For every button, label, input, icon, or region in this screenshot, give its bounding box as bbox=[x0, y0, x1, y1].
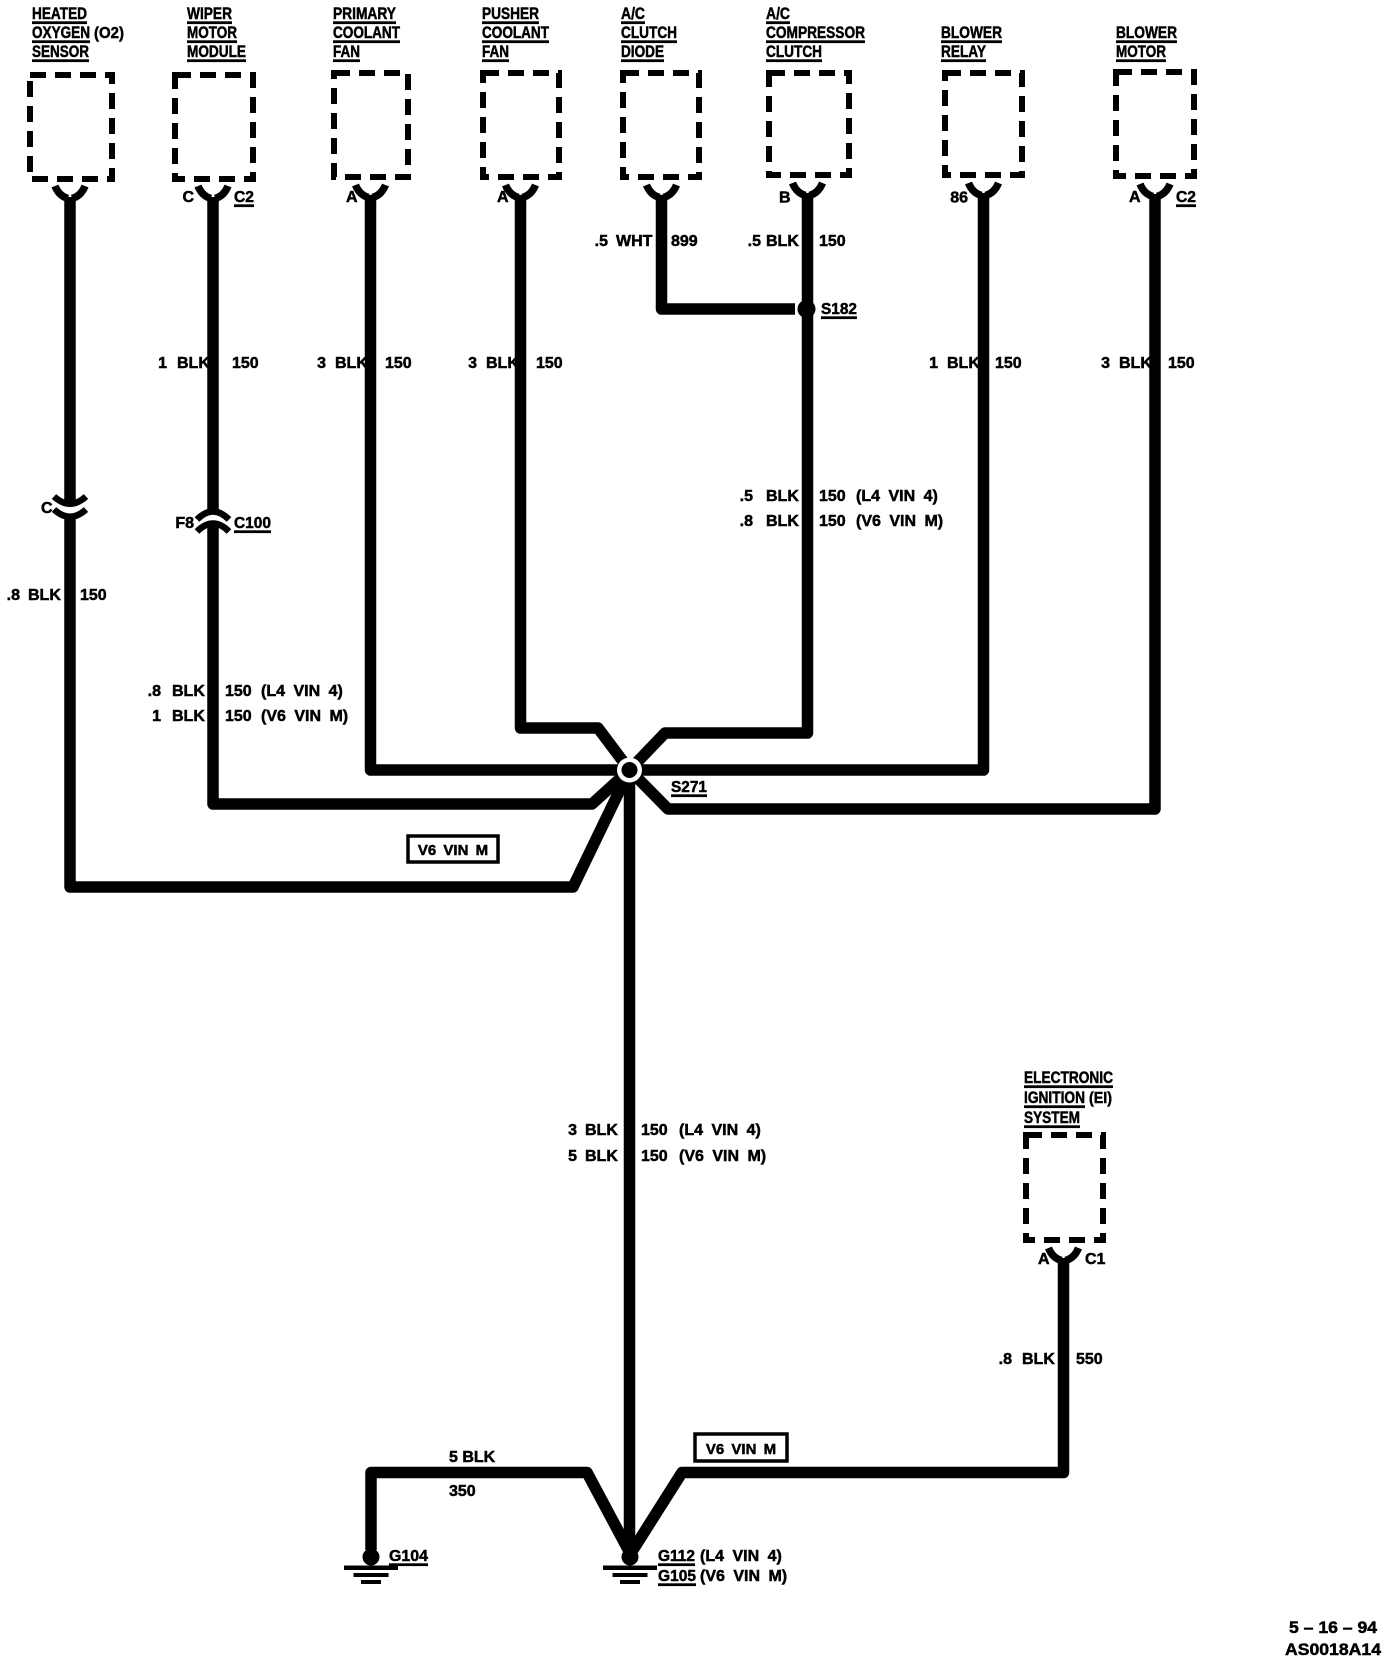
svg-text:RELAY: RELAY bbox=[941, 42, 987, 61]
svg-text:CLUTCH: CLUTCH bbox=[766, 42, 822, 61]
wire pusher coolant fan to S271 bbox=[521, 195, 630, 770]
electronic ignition system box bbox=[1026, 1135, 1103, 1240]
wiper motor module box bbox=[175, 75, 253, 179]
svg-text:BLK: BLK bbox=[766, 513, 799, 530]
svg-text:(O2): (O2) bbox=[94, 25, 124, 42]
in-line connector C at O2 sensor pigtail bbox=[54, 497, 86, 517]
svg-text:(L4 VIN 4): (L4 VIN 4) bbox=[679, 1122, 761, 1139]
svg-text:3: 3 bbox=[1101, 355, 1110, 372]
svg-text:.8: .8 bbox=[148, 683, 161, 700]
svg-text:150: 150 bbox=[1168, 355, 1195, 372]
svg-text:(V6 VIN M): (V6 VIN M) bbox=[700, 1568, 787, 1585]
connector Y at O2 sensor bbox=[55, 186, 85, 199]
connector Y at diode bbox=[647, 185, 677, 198]
ground G112/G105 bbox=[603, 1549, 657, 1585]
svg-text:150: 150 bbox=[819, 488, 846, 505]
svg-text:.5: .5 bbox=[740, 488, 753, 505]
flag box V6 VIN M (bottom) bbox=[695, 1434, 787, 1461]
svg-text:(L4 VIN 4): (L4 VIN 4) bbox=[700, 1548, 782, 1565]
svg-text:150: 150 bbox=[995, 355, 1022, 372]
svg-text:MODULE: MODULE bbox=[187, 42, 246, 61]
svg-text:G104: G104 bbox=[389, 1548, 428, 1565]
ground G104 bbox=[344, 1549, 398, 1585]
svg-text:IGNITION: IGNITION bbox=[1024, 1088, 1085, 1107]
svg-text:S271: S271 bbox=[671, 779, 707, 796]
svg-text:BLK: BLK bbox=[172, 683, 205, 700]
svg-text:3: 3 bbox=[568, 1122, 577, 1139]
connector Y at pusher fan pin A bbox=[506, 185, 536, 198]
svg-text:C100: C100 bbox=[234, 515, 271, 532]
svg-text:ELECTRONIC: ELECTRONIC bbox=[1024, 1068, 1113, 1087]
A/C compressor clutch box bbox=[769, 73, 849, 175]
svg-text:(L4 VIN 4): (L4 VIN 4) bbox=[856, 488, 938, 505]
svg-text:OXYGEN: OXYGEN bbox=[32, 23, 90, 42]
splice S182 bbox=[798, 300, 816, 318]
svg-text:A: A bbox=[497, 189, 509, 206]
svg-text:BLK: BLK bbox=[172, 708, 205, 725]
svg-text:BLOWER: BLOWER bbox=[1116, 23, 1177, 42]
svg-text:BLK: BLK bbox=[585, 1122, 618, 1139]
svg-text:V6 VIN M: V6 VIN M bbox=[706, 1441, 776, 1458]
svg-text:PUSHER: PUSHER bbox=[482, 4, 539, 23]
wire O2 sensor to S271 (V6 VIN M path) bbox=[70, 197, 630, 887]
blower motor box bbox=[1116, 72, 1194, 176]
svg-text:PRIMARY: PRIMARY bbox=[333, 4, 397, 23]
svg-text:CLUTCH: CLUTCH bbox=[621, 23, 677, 42]
svg-text:COMPRESSOR: COMPRESSOR bbox=[766, 23, 865, 42]
svg-text:A/C: A/C bbox=[766, 4, 790, 23]
wire blower motor to S271 bbox=[630, 194, 1156, 809]
A/C clutch diode box bbox=[623, 73, 699, 177]
svg-text:SENSOR: SENSOR bbox=[32, 42, 89, 61]
pusher coolant fan box bbox=[483, 73, 559, 177]
connector Y at wiper motor C2 bbox=[198, 186, 228, 199]
svg-text:C1: C1 bbox=[1085, 1251, 1106, 1268]
svg-text:BLK: BLK bbox=[766, 233, 799, 250]
gap at connector C100 bbox=[206, 515, 220, 525]
svg-text:C2: C2 bbox=[1176, 189, 1196, 206]
svg-text:5 – 16 – 94: 5 – 16 – 94 bbox=[1289, 1618, 1378, 1637]
svg-text:150: 150 bbox=[641, 1122, 668, 1139]
svg-text:A: A bbox=[1129, 189, 1141, 206]
svg-text:3: 3 bbox=[468, 355, 477, 372]
svg-text:899: 899 bbox=[671, 233, 698, 250]
svg-text:BLK: BLK bbox=[177, 355, 210, 372]
svg-text:FAN: FAN bbox=[482, 42, 509, 61]
svg-text:BLK: BLK bbox=[585, 1148, 618, 1165]
wire electronic ignition to ground (V6 VIN M) bbox=[631, 1258, 1064, 1553]
svg-text:150: 150 bbox=[232, 355, 259, 372]
svg-text:.8: .8 bbox=[7, 587, 20, 604]
svg-text:BLK: BLK bbox=[486, 355, 519, 372]
svg-text:A: A bbox=[346, 189, 358, 206]
svg-text:.8: .8 bbox=[999, 1351, 1012, 1368]
svg-text:.5: .5 bbox=[595, 233, 608, 250]
svg-text:150: 150 bbox=[225, 683, 252, 700]
svg-text:150: 150 bbox=[536, 355, 563, 372]
svg-text:DIODE: DIODE bbox=[621, 42, 664, 61]
svg-text:A: A bbox=[1038, 1251, 1050, 1268]
connector Y at EI system pin A C1 bbox=[1049, 1248, 1079, 1261]
blower relay box bbox=[945, 73, 1022, 175]
svg-text:C: C bbox=[182, 189, 194, 206]
primary coolant fan box bbox=[334, 73, 408, 177]
wire wiper motor module to S271 bbox=[213, 197, 630, 804]
svg-text:SYSTEM: SYSTEM bbox=[1024, 1108, 1080, 1127]
wire S271 to ground G112/G105 bbox=[624, 770, 636, 1552]
connector Y at blower motor pin A C2 bbox=[1140, 184, 1170, 197]
svg-text:550: 550 bbox=[1076, 1351, 1103, 1368]
connector Y at primary fan pin A bbox=[356, 185, 386, 198]
svg-text:MOTOR: MOTOR bbox=[1116, 42, 1166, 61]
connector Y at blower relay pin 86 bbox=[969, 183, 999, 196]
in-line connector C100 (F8) bbox=[197, 512, 229, 532]
svg-text:MOTOR: MOTOR bbox=[187, 23, 237, 42]
svg-text:5: 5 bbox=[568, 1148, 577, 1165]
svg-text:BLK: BLK bbox=[766, 488, 799, 505]
svg-text:(V6 VIN M): (V6 VIN M) bbox=[679, 1148, 766, 1165]
svg-text:C: C bbox=[41, 500, 53, 517]
svg-text:.8: .8 bbox=[740, 513, 753, 530]
svg-text:150: 150 bbox=[80, 587, 107, 604]
svg-text:150: 150 bbox=[225, 708, 252, 725]
svg-text:BLK: BLK bbox=[947, 355, 980, 372]
svg-text:86: 86 bbox=[950, 190, 968, 207]
svg-text:1: 1 bbox=[158, 355, 167, 372]
svg-text:150: 150 bbox=[819, 513, 846, 530]
wire A/C clutch diode to S182 bbox=[662, 195, 796, 309]
svg-text:3: 3 bbox=[317, 355, 326, 372]
svg-text:WIPER: WIPER bbox=[187, 4, 232, 23]
splice S271 bbox=[617, 758, 642, 783]
svg-text:V6 VIN M: V6 VIN M bbox=[418, 842, 488, 859]
svg-text:BLK: BLK bbox=[28, 587, 61, 604]
svg-text:COOLANT: COOLANT bbox=[482, 23, 549, 42]
flag box V6 VIN M (near S271) bbox=[408, 836, 498, 862]
svg-text:G112: G112 bbox=[658, 1548, 695, 1565]
svg-text:5 BLK: 5 BLK bbox=[449, 1449, 496, 1466]
svg-text:C2: C2 bbox=[234, 189, 254, 206]
wire blower relay to S271 bbox=[630, 193, 984, 770]
svg-text:B: B bbox=[779, 190, 791, 207]
svg-text:1: 1 bbox=[152, 708, 161, 725]
svg-text:150: 150 bbox=[819, 233, 846, 250]
wire ground branch to G104 bbox=[371, 1473, 630, 1554]
svg-text:(V6 VIN M): (V6 VIN M) bbox=[261, 708, 348, 725]
svg-text:FAN: FAN bbox=[333, 42, 360, 61]
svg-text:G105: G105 bbox=[658, 1568, 696, 1585]
svg-text:(L4 VIN 4): (L4 VIN 4) bbox=[261, 683, 343, 700]
svg-text:BLOWER: BLOWER bbox=[941, 23, 1002, 42]
svg-text:S182: S182 bbox=[821, 301, 857, 318]
svg-text:HEATED: HEATED bbox=[32, 4, 87, 23]
svg-text:150: 150 bbox=[385, 355, 412, 372]
svg-text:BLK: BLK bbox=[335, 355, 368, 372]
svg-text:(V6 VIN M): (V6 VIN M) bbox=[856, 513, 943, 530]
heated oxygen sensor box bbox=[30, 75, 112, 179]
wire A/C compressor clutch through S182 to S271 bbox=[630, 193, 808, 770]
svg-text:.5: .5 bbox=[748, 233, 761, 250]
svg-text:BLK: BLK bbox=[1119, 355, 1152, 372]
svg-text:350: 350 bbox=[449, 1483, 476, 1500]
connector Y at compressor clutch pin B bbox=[793, 183, 823, 196]
wire primary coolant fan to S271 bbox=[371, 195, 630, 770]
svg-text:BLK: BLK bbox=[1022, 1351, 1055, 1368]
gap at connector C (O2 pigtail) bbox=[63, 506, 77, 514]
svg-text:AS0018A14: AS0018A14 bbox=[1285, 1640, 1382, 1659]
svg-text:WHT: WHT bbox=[616, 233, 653, 250]
svg-text:(EI): (EI) bbox=[1089, 1090, 1112, 1107]
svg-text:1: 1 bbox=[929, 355, 938, 372]
svg-text:150: 150 bbox=[641, 1148, 668, 1165]
svg-text:COOLANT: COOLANT bbox=[333, 23, 400, 42]
svg-text:F8: F8 bbox=[175, 515, 194, 532]
svg-text:A/C: A/C bbox=[621, 4, 645, 23]
